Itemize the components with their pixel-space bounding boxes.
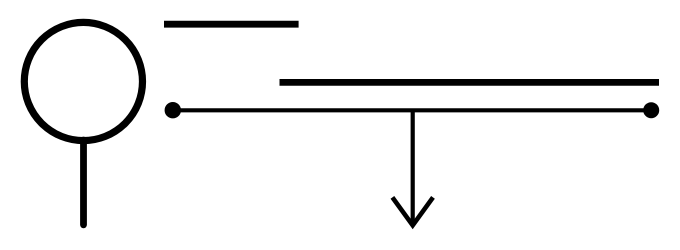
node dot left — [165, 102, 181, 118]
arrow shaft (down) — [411, 110, 415, 221]
node dot right — [643, 102, 659, 118]
wire between nodes — [173, 108, 651, 112]
stem wire below circle — [80, 140, 87, 225]
arrowhead — [392, 197, 433, 225]
long bar (plate) — [280, 79, 660, 86]
circle (lamp/probe body) — [24, 22, 142, 140]
top bar (short plate) — [164, 21, 299, 28]
